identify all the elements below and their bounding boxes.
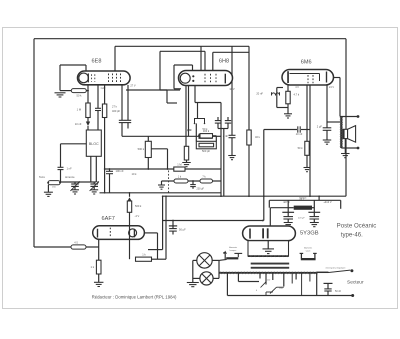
svg-text:40 k: 40 k <box>255 135 261 139</box>
svg-text:10 nF: 10 nF <box>75 122 82 126</box>
svg-text:BLOC: BLOC <box>89 142 99 146</box>
svg-text:+410 V: +410 V <box>323 200 332 204</box>
svg-text:Poste Océanic: Poste Océanic <box>337 223 377 230</box>
svg-text:5Y3GB: 5Y3GB <box>300 231 319 237</box>
svg-text:500 k: 500 k <box>138 147 145 151</box>
svg-text:50 k: 50 k <box>77 94 83 98</box>
svg-text:10 nF: 10 nF <box>296 132 303 136</box>
svg-text:type-46.: type-46. <box>341 231 363 238</box>
svg-text:4 V: 4 V <box>295 86 299 89</box>
svg-text:1 nF: 1 nF <box>187 128 193 132</box>
svg-text:filaments: filaments <box>229 246 237 249</box>
svg-text:6M6: 6M6 <box>301 59 312 65</box>
svg-text:4,7 k: 4,7 k <box>294 93 300 97</box>
svg-text:50 nF: 50 nF <box>335 290 342 293</box>
svg-text:24 V: 24 V <box>329 86 334 89</box>
svg-text:200 µF: 200 µF <box>197 187 205 190</box>
svg-text:4 S: 4 S <box>74 241 78 244</box>
svg-text:Secteur: Secteur <box>347 280 364 286</box>
svg-text:400 pF: 400 pF <box>112 109 120 113</box>
svg-text:500 k: 500 k <box>135 204 142 208</box>
svg-text:50 k: 50 k <box>298 146 304 150</box>
svg-text:valve: valve <box>306 250 312 252</box>
svg-text:427 V: 427 V <box>283 200 290 204</box>
svg-text:2 nF: 2 nF <box>223 134 229 138</box>
svg-text:6H8: 6H8 <box>219 58 229 64</box>
svg-text:2 µF: 2 µF <box>317 124 323 128</box>
svg-text:2x8 µF: 2x8 µF <box>298 218 305 220</box>
svg-text:50 µF: 50 µF <box>179 228 186 232</box>
svg-text:Antenne: Antenne <box>65 175 75 179</box>
svg-text:CAv: CAv <box>101 86 107 90</box>
svg-text:-4 V: -4 V <box>135 214 140 218</box>
svg-text:Terre: Terre <box>39 175 45 179</box>
svg-text:500 pF: 500 pF <box>202 149 210 153</box>
svg-text:27 k: 27 k <box>112 105 118 109</box>
svg-text:50 k: 50 k <box>203 127 209 131</box>
svg-text:lampes: lampes <box>230 250 237 252</box>
svg-text:20 nF: 20 nF <box>256 92 263 96</box>
svg-text:1 M: 1 M <box>77 108 81 112</box>
svg-text:27 V: 27 V <box>130 84 136 88</box>
svg-text:1 nF: 1 nF <box>67 167 73 171</box>
svg-text:1 M: 1 M <box>177 162 181 166</box>
svg-text:Rédacteur : Dominique Lambert: Rédacteur : Dominique Lambert (RPL 1984) <box>92 295 177 300</box>
svg-text:6E8: 6E8 <box>92 59 102 65</box>
svg-text:filaments: filaments <box>304 247 312 250</box>
svg-text:10 k: 10 k <box>132 172 138 176</box>
svg-text:Valable: Valable <box>299 198 307 200</box>
svg-text:6AF7: 6AF7 <box>102 216 115 222</box>
svg-text:interrupteur bipolaire: interrupteur bipolaire <box>325 267 346 270</box>
